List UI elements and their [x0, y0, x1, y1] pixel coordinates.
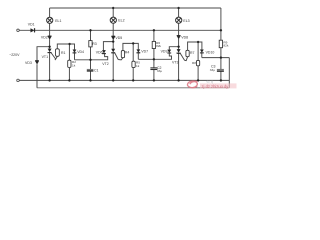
wire stage3 left branch	[169, 47, 178, 50]
resistor R1	[56, 49, 60, 57]
svg-text:VT2: VT2	[102, 62, 108, 66]
svg-text:1k: 1k	[72, 64, 76, 68]
red watermark band	[200, 83, 237, 88]
svg-text:dz sj: dz sj	[207, 80, 214, 84]
wire right column	[220, 8, 222, 80]
node bottom rail VT3	[178, 79, 180, 81]
node top rail EL3	[178, 7, 180, 9]
thyristor VT2	[111, 49, 115, 53]
wire VT2 gate	[115, 53, 118, 60]
wire right return vertical	[228, 58, 230, 88]
diode VD4 stage1	[73, 50, 77, 54]
node stage3 chain	[178, 46, 180, 48]
resistor R9	[219, 40, 222, 48]
diode VD9 stage3 left	[168, 50, 172, 54]
diode VD8 stage3 chain zener	[177, 35, 181, 39]
wire stage3 chain	[178, 39, 180, 81]
node trigger2 C2	[153, 58, 155, 60]
terminal input lower	[17, 79, 20, 82]
svg-text:82k: 82k	[156, 44, 161, 48]
resistor R2	[68, 60, 71, 67]
terminal input upper	[17, 29, 20, 32]
wire top rail	[50, 7, 221, 9]
resistor R8	[196, 60, 199, 65]
wire bottom rail	[19, 79, 229, 81]
resistor R5	[132, 61, 135, 67]
svg-text:VD1: VD1	[28, 22, 35, 26]
svg-text:C1: C1	[94, 69, 99, 73]
node top rail EL2	[112, 7, 114, 9]
wire stage3 pi network	[188, 42, 202, 80]
wire stage1 chain	[49, 39, 51, 80]
node stage1 pi	[69, 43, 71, 45]
wire stage2 chain	[112, 39, 114, 81]
svg-text:VD7: VD7	[141, 49, 148, 53]
thyristor VT3	[177, 49, 181, 53]
svg-text:R8: R8	[192, 61, 196, 65]
node bottom rail R5	[132, 79, 134, 81]
diode VD3 stage1 left	[35, 60, 39, 64]
diode VD7 stage2	[137, 50, 141, 54]
diode VD2 stage1 chain zener	[48, 36, 52, 40]
wire stage1 pi network	[57, 44, 74, 80]
node stage3 pi	[197, 41, 199, 43]
diode VD5 stage2 chain zener	[112, 36, 116, 40]
diode VD6 stage2 left	[102, 50, 106, 54]
resistor R3	[89, 41, 92, 47]
wire trigger bus 3	[202, 53, 230, 58]
node stage1 chain	[49, 46, 51, 48]
svg-text:VD8: VD8	[181, 35, 188, 39]
svg-text:33μ: 33μ	[157, 69, 162, 73]
wire lamp EL2 leads	[112, 8, 114, 36]
node bottom rail R8	[197, 79, 199, 81]
resistor R6	[152, 41, 155, 48]
wire lamp EL1 leads	[49, 8, 51, 36]
svg-text:1k: 1k	[136, 64, 140, 68]
svg-text:VT1: VT1	[42, 55, 48, 59]
wire VT3 gate	[180, 53, 184, 60]
wire main rail	[19, 29, 221, 31]
node trigger3 C3	[220, 57, 222, 59]
svg-text:R7: R7	[190, 51, 195, 55]
node main rail R6	[153, 29, 155, 31]
node bottom rail VT2	[112, 79, 114, 81]
svg-text:EL1: EL1	[55, 19, 61, 23]
node bottom rail R2	[68, 79, 70, 81]
node stage2 pi	[132, 42, 134, 44]
resistor R7	[186, 50, 189, 56]
wire R7 bottom to VT3 gate	[185, 57, 188, 61]
labels	[9, 19, 229, 73]
svg-text:EL3: EL3	[183, 19, 189, 23]
lamp EL3	[176, 17, 182, 23]
svg-text:EL2: EL2	[118, 19, 124, 23]
svg-text:33μ: 33μ	[210, 68, 215, 72]
node bottom rail C1	[89, 79, 91, 81]
node bottom rail VT1	[49, 79, 51, 81]
lamp EL2	[110, 17, 116, 23]
wire R4 bottom to VT2 gate	[118, 58, 123, 60]
node bottom rail C2	[153, 79, 155, 81]
wire trigger bus 1	[75, 53, 108, 60]
svg-text:VD6: VD6	[96, 50, 103, 54]
svg-text:VD4: VD4	[77, 50, 84, 54]
red watermark swirl	[187, 81, 197, 88]
svg-text:VD9: VD9	[161, 50, 168, 54]
wire stage2 pi network	[123, 43, 138, 80]
svg-text:82k: 82k	[223, 44, 228, 48]
node stage2 chain	[112, 41, 114, 43]
wire VT1 gate	[51, 53, 56, 59]
wire R3-C1 column	[90, 30, 92, 80]
thyristor VT1	[48, 49, 52, 53]
svg-text:R1: R1	[61, 51, 66, 55]
svg-text:VD10: VD10	[206, 51, 215, 55]
diode VD10 stage3	[200, 50, 204, 54]
svg-text:R4: R4	[125, 51, 130, 55]
wire R6-C2 column	[153, 30, 155, 80]
svg-text:VD2: VD2	[41, 35, 48, 39]
wire lamp EL3 leads	[178, 8, 180, 35]
node main rail right	[220, 29, 222, 31]
capacitor C3	[217, 69, 224, 71]
wire stage1 left branch	[37, 47, 50, 88]
wire trigger bus 2	[138, 53, 171, 59]
junction node dots	[49, 7, 222, 82]
svg-text:VD3: VD3	[25, 61, 32, 65]
capacitor C1	[87, 69, 94, 71]
svg-text:R3: R3	[92, 42, 97, 46]
svg-text:VT3: VT3	[172, 61, 178, 65]
svg-text:~220V: ~220V	[9, 53, 20, 57]
lamp EL1	[47, 17, 53, 23]
node trigger1 C1	[89, 59, 91, 61]
diode VD1	[31, 28, 35, 32]
svg-text:VD5: VD5	[115, 36, 122, 40]
wire stage2 left branch	[103, 42, 113, 51]
wire bottom return line	[37, 87, 230, 89]
node main rail R3	[89, 29, 91, 31]
wire R1 bottom to VT1 gate	[55, 56, 58, 60]
capacitor C2	[150, 68, 157, 70]
svg-text:zj dz zhizuo dy: zj dz zhizuo dy	[202, 84, 230, 89]
node bottom rail C3	[220, 79, 222, 81]
resistor R4	[121, 51, 124, 58]
